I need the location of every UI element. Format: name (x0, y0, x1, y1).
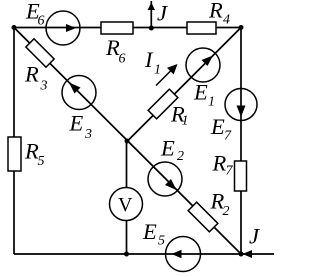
node center (125, 139, 130, 144)
arrow current J top (148, 3, 155, 11)
voltmeter V (110, 188, 143, 221)
svg-text:1: 1 (154, 63, 161, 78)
arrow current J bottom right (243, 250, 253, 258)
label E6 (25, 0, 45, 29)
svg-text:R: R (212, 151, 227, 176)
wire diagonal TR to center (127, 28, 241, 142)
wire top TL-TR (14, 27, 241, 29)
node top J junction (149, 26, 154, 31)
label E3 (69, 111, 93, 143)
svg-text:I: I (144, 47, 154, 72)
svg-text:E: E (210, 114, 225, 139)
resistor R4 (187, 22, 216, 34)
label E2 (160, 136, 184, 165)
svg-text:E: E (69, 111, 84, 136)
svg-text:J: J (157, 1, 168, 26)
source E6 (46, 11, 80, 45)
label E5 (142, 219, 165, 249)
node TL (12, 25, 17, 30)
svg-text:5: 5 (158, 234, 165, 249)
resistor R1 (148, 89, 178, 119)
label R7 (212, 151, 234, 179)
svg-text:E: E (160, 136, 175, 161)
svg-text:E: E (193, 80, 208, 105)
label R1 (170, 102, 189, 129)
svg-text:3: 3 (40, 79, 48, 94)
label E7 (210, 114, 232, 144)
svg-text:6: 6 (119, 52, 126, 67)
node bottom center (124, 252, 129, 257)
label E1 (193, 80, 215, 110)
source E2 (148, 162, 182, 196)
label R5 (24, 139, 45, 170)
source E1 (186, 48, 220, 82)
source E3 (62, 76, 96, 110)
svg-text:V: V (118, 194, 133, 216)
resistor R2 (188, 202, 218, 232)
svg-text:2: 2 (177, 149, 184, 164)
node TR (239, 25, 244, 30)
svg-text:7: 7 (226, 164, 234, 179)
resistor R3 (26, 39, 54, 67)
resistor R6 (101, 22, 133, 34)
label I1 (144, 47, 161, 78)
svg-text:1: 1 (182, 114, 189, 129)
svg-text:1: 1 (208, 95, 215, 110)
source E7 (225, 89, 257, 121)
wire right TR-BR (240, 28, 242, 255)
svg-text:2: 2 (223, 204, 230, 219)
label R6 (105, 35, 126, 67)
wire diagonal TL to BR (14, 28, 241, 255)
label R3 (24, 62, 48, 94)
wire stub current source J bottom right (241, 253, 274, 255)
svg-text:5: 5 (38, 154, 45, 169)
svg-text:E: E (142, 219, 157, 244)
svg-text:7: 7 (224, 129, 232, 144)
wire stub current source J top (150, 1, 152, 28)
svg-text:4: 4 (223, 13, 230, 28)
wire bottom BL-BR (14, 253, 241, 255)
svg-text:R: R (24, 62, 39, 87)
svg-text:R: R (208, 0, 223, 23)
wire center vertical to bottom (126, 141, 128, 254)
resistor R7 (235, 161, 247, 191)
source E5 (166, 237, 201, 272)
node BR (239, 252, 244, 257)
label R4 (208, 0, 230, 28)
svg-text:J: J (249, 224, 260, 249)
svg-text:6: 6 (38, 14, 45, 29)
svg-text:3: 3 (84, 127, 92, 142)
wire left TL-BL (13, 28, 15, 255)
label R2 (210, 189, 230, 220)
resistor R5 (8, 137, 21, 171)
arrow current I1 (156, 64, 178, 86)
